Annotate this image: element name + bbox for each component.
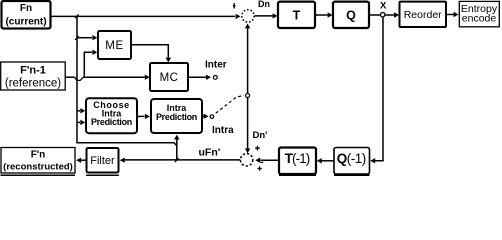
wire Filter to F'n (reconstructed) bbox=[76, 158, 86, 163]
wire T to Q bbox=[316, 12, 333, 17]
svg-text:Fn: Fn bbox=[20, 3, 32, 14]
svg-text:Prediction: Prediction bbox=[156, 112, 197, 122]
block Q bbox=[333, 2, 369, 28]
wire branch to Choose Intra top input bbox=[77, 108, 85, 113]
block Fn (current) bbox=[2, 1, 51, 29]
svg-text:ME: ME bbox=[105, 40, 123, 52]
block Choose Intra Prediction bbox=[86, 98, 137, 133]
svg-text:encode: encode bbox=[462, 13, 497, 25]
junction tick on Fn line bbox=[75, 14, 79, 18]
svg-text:X: X bbox=[380, 0, 387, 11]
switch pole contact bbox=[246, 94, 250, 98]
junction tick at ME branch bbox=[75, 36, 79, 40]
svg-text:F'n-1: F'n-1 bbox=[20, 65, 46, 77]
wire X node down to Q(-1) bbox=[370, 17, 383, 163]
switch dashed arm bbox=[216, 95, 244, 113]
wire X node to Reorder bbox=[385, 12, 399, 17]
label + right of adder bbox=[257, 166, 261, 170]
block Q(-1) bbox=[334, 148, 370, 175]
wire F'n-1 to MC (with crossover hop) bbox=[66, 75, 150, 81]
svg-text:Reorder: Reorder bbox=[404, 9, 442, 21]
wire prediction vertical (pole to subtractor) bbox=[245, 24, 250, 94]
svg-text:MC: MC bbox=[160, 72, 179, 84]
label + at subtractor bbox=[233, 3, 236, 8]
svg-text:(current): (current) bbox=[5, 17, 46, 28]
wire Q to X node bbox=[370, 14, 381, 16]
Intra contact bbox=[210, 115, 214, 119]
subtractor node bbox=[242, 10, 254, 22]
block MC bbox=[150, 63, 188, 91]
wire MC to Inter contact bbox=[189, 75, 212, 80]
svg-text:Filter: Filter bbox=[90, 155, 115, 167]
svg-text:(reconstructed): (reconstructed) bbox=[3, 162, 73, 173]
wire prediction vertical (pole to adder) bbox=[245, 98, 250, 154]
wire branch to Choose Intra bottom input bbox=[77, 120, 85, 125]
wire F'n-1 branch up to ME bottom input bbox=[84, 50, 97, 78]
shadow under Filter bbox=[86, 174, 119, 176]
svg-text:uFn': uFn' bbox=[199, 146, 221, 158]
svg-text:Q: Q bbox=[346, 9, 356, 23]
wire adder to Filter (uFn') bbox=[120, 158, 241, 163]
wire branch to ME top input bbox=[77, 35, 97, 40]
wire Fn to subtractor bbox=[52, 14, 241, 19]
wire Reorder to Entropy encode bbox=[447, 12, 459, 17]
svg-text:(reference): (reference) bbox=[5, 78, 61, 90]
shadow under F'n (reconstructed) bbox=[1, 174, 76, 176]
wire T(-1) to adder bbox=[255, 158, 278, 163]
wire uFn' branch up to Intra Prediction bbox=[174, 135, 179, 160]
wire Intra Prediction to Intra contact bbox=[202, 114, 208, 119]
wire Choose Intra to Intra Prediction bbox=[138, 114, 150, 119]
shadow under T(-1) bbox=[279, 174, 316, 176]
wire Q(-1) to T(-1) bbox=[317, 158, 334, 163]
adder node bbox=[240, 154, 252, 166]
block T(-1) bbox=[279, 148, 316, 175]
svg-text:Inter: Inter bbox=[205, 60, 227, 71]
wire subtractor to T, label Dn bbox=[255, 13, 278, 18]
block Reorder bbox=[400, 2, 447, 27]
block F'n-1 (reference) bbox=[1, 62, 66, 90]
block ME bbox=[98, 31, 131, 59]
svg-text:Prediction: Prediction bbox=[91, 117, 132, 127]
Inter contact bbox=[213, 76, 217, 80]
block T bbox=[278, 2, 315, 28]
svg-text:F'n: F'n bbox=[31, 150, 46, 161]
wire ME to MC bbox=[132, 45, 172, 63]
block Intra Prediction bbox=[151, 99, 202, 133]
svg-text:T: T bbox=[293, 9, 301, 23]
svg-text:Dn: Dn bbox=[258, 0, 270, 9]
block F'n (reconstructed) bbox=[1, 148, 75, 174]
block Entropy encode bbox=[459, 1, 499, 26]
svg-text:Intra: Intra bbox=[212, 125, 234, 136]
junction tick on uFn' line bbox=[175, 158, 179, 162]
shadow under Q(-1) bbox=[334, 174, 370, 176]
svg-text:Q(-1): Q(-1) bbox=[337, 151, 366, 166]
block Filter bbox=[87, 148, 119, 173]
svg-text:T(-1): T(-1) bbox=[285, 151, 310, 166]
svg-text:Dn': Dn' bbox=[253, 130, 268, 141]
label + above adder bbox=[255, 146, 260, 151]
X node bbox=[381, 13, 385, 17]
wire Fn bus down left side bbox=[77, 16, 177, 145]
